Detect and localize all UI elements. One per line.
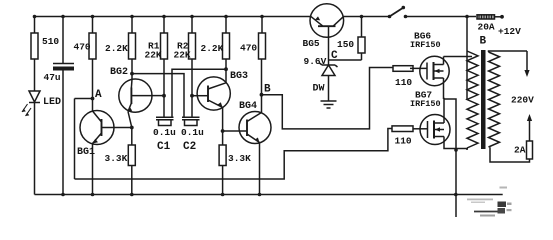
svg-text:510: 510 [42,36,59,47]
svg-text:C2: C2 [183,141,196,153]
svg-text:2A: 2A [514,145,526,156]
svg-text:BG3: BG3 [230,71,248,82]
svg-text:220V: 220V [511,95,534,106]
svg-text:110: 110 [395,136,412,147]
svg-text:47u: 47u [44,72,61,83]
svg-text:0.1u: 0.1u [181,127,204,138]
svg-text:150: 150 [337,39,354,50]
svg-text:BG5: BG5 [303,38,320,49]
svg-text:BG2: BG2 [110,67,128,78]
svg-text:2.2K: 2.2K [105,43,128,54]
svg-text:470: 470 [74,42,91,53]
svg-text:470: 470 [240,43,257,54]
svg-text:LED: LED [43,97,61,108]
svg-text:BG1: BG1 [77,147,95,158]
svg-text:DW: DW [313,84,325,95]
svg-text:20A: 20A [478,22,495,33]
svg-text:0.1u: 0.1u [153,127,176,138]
svg-text:IRF150: IRF150 [410,99,441,109]
svg-text:IRF150: IRF150 [410,40,441,50]
svg-text:3.3K: 3.3K [228,153,251,164]
svg-text:B: B [480,36,487,48]
svg-text:3.3K: 3.3K [105,153,128,164]
svg-text:A: A [95,89,102,101]
svg-text:BG4: BG4 [239,101,257,112]
svg-text:C1: C1 [157,141,171,153]
svg-text:C: C [331,50,338,62]
svg-text:B: B [264,84,271,96]
svg-text:110: 110 [395,77,412,88]
svg-text:22K: 22K [145,50,162,61]
svg-text:22K: 22K [174,50,191,61]
svg-text:9.6V: 9.6V [304,56,327,67]
svg-text:+12V: +12V [498,26,521,37]
svg-text:2.2K: 2.2K [201,43,224,54]
